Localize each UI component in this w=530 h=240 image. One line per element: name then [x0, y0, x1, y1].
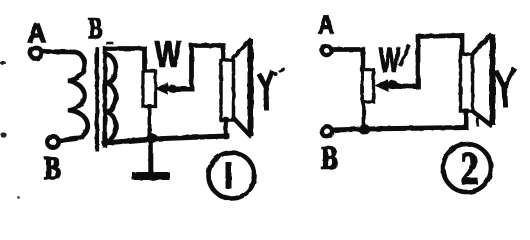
svg-text:B: B: [321, 141, 338, 177]
svg-text:A: A: [28, 18, 47, 48]
svg-text:B: B: [44, 151, 61, 187]
svg-text:B: B: [89, 12, 103, 45]
svg-text:W: W: [379, 42, 400, 80]
svg-text:A: A: [318, 11, 334, 39]
svg-text:2: 2: [461, 142, 479, 193]
svg-text:W: W: [155, 34, 181, 75]
